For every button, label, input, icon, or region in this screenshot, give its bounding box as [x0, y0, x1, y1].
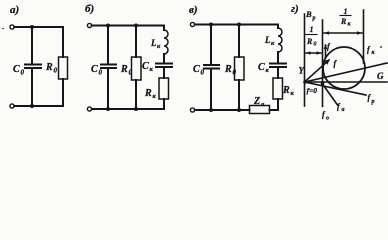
svg-text:f=0: f=0	[307, 86, 318, 95]
svg-text:0: 0	[54, 67, 58, 75]
svg-text:1: 1	[344, 7, 348, 16]
svg-text:р: р	[312, 16, 316, 22]
svg-text:B: B	[305, 9, 312, 19]
svg-text:0: 0	[21, 69, 25, 77]
svg-text:р: р	[371, 99, 375, 105]
svg-text:C: C	[258, 62, 265, 73]
svg-text:G: G	[377, 71, 384, 81]
svg-text:0: 0	[233, 69, 237, 77]
svg-text:L: L	[150, 38, 157, 48]
svg-text:L: L	[264, 35, 271, 45]
svg-text:0: 0	[314, 42, 317, 48]
svg-text:б): б)	[85, 3, 94, 15]
svg-text:в): в)	[189, 4, 198, 16]
svg-text:R: R	[144, 88, 152, 99]
svg-text:C: C	[142, 61, 149, 72]
svg-text:R: R	[45, 62, 53, 73]
svg-text:о: о	[326, 116, 329, 122]
svg-text:C: C	[193, 64, 200, 75]
svg-text:R: R	[120, 64, 128, 75]
svg-text:C: C	[13, 64, 20, 75]
svg-text:а): а)	[10, 4, 19, 16]
svg-text:R: R	[306, 37, 313, 46]
svg-text:1: 1	[310, 25, 314, 34]
svg-text:R: R	[282, 85, 290, 96]
svg-text:0: 0	[201, 69, 205, 77]
svg-text:0: 0	[99, 69, 103, 77]
svg-text:а: а	[342, 107, 345, 113]
svg-text:Z: Z	[253, 96, 260, 107]
svg-text:R: R	[340, 17, 347, 26]
svg-text:г): г)	[291, 3, 299, 15]
svg-text:R: R	[224, 64, 232, 75]
svg-text:0: 0	[129, 69, 133, 77]
svg-text:C: C	[91, 64, 98, 75]
